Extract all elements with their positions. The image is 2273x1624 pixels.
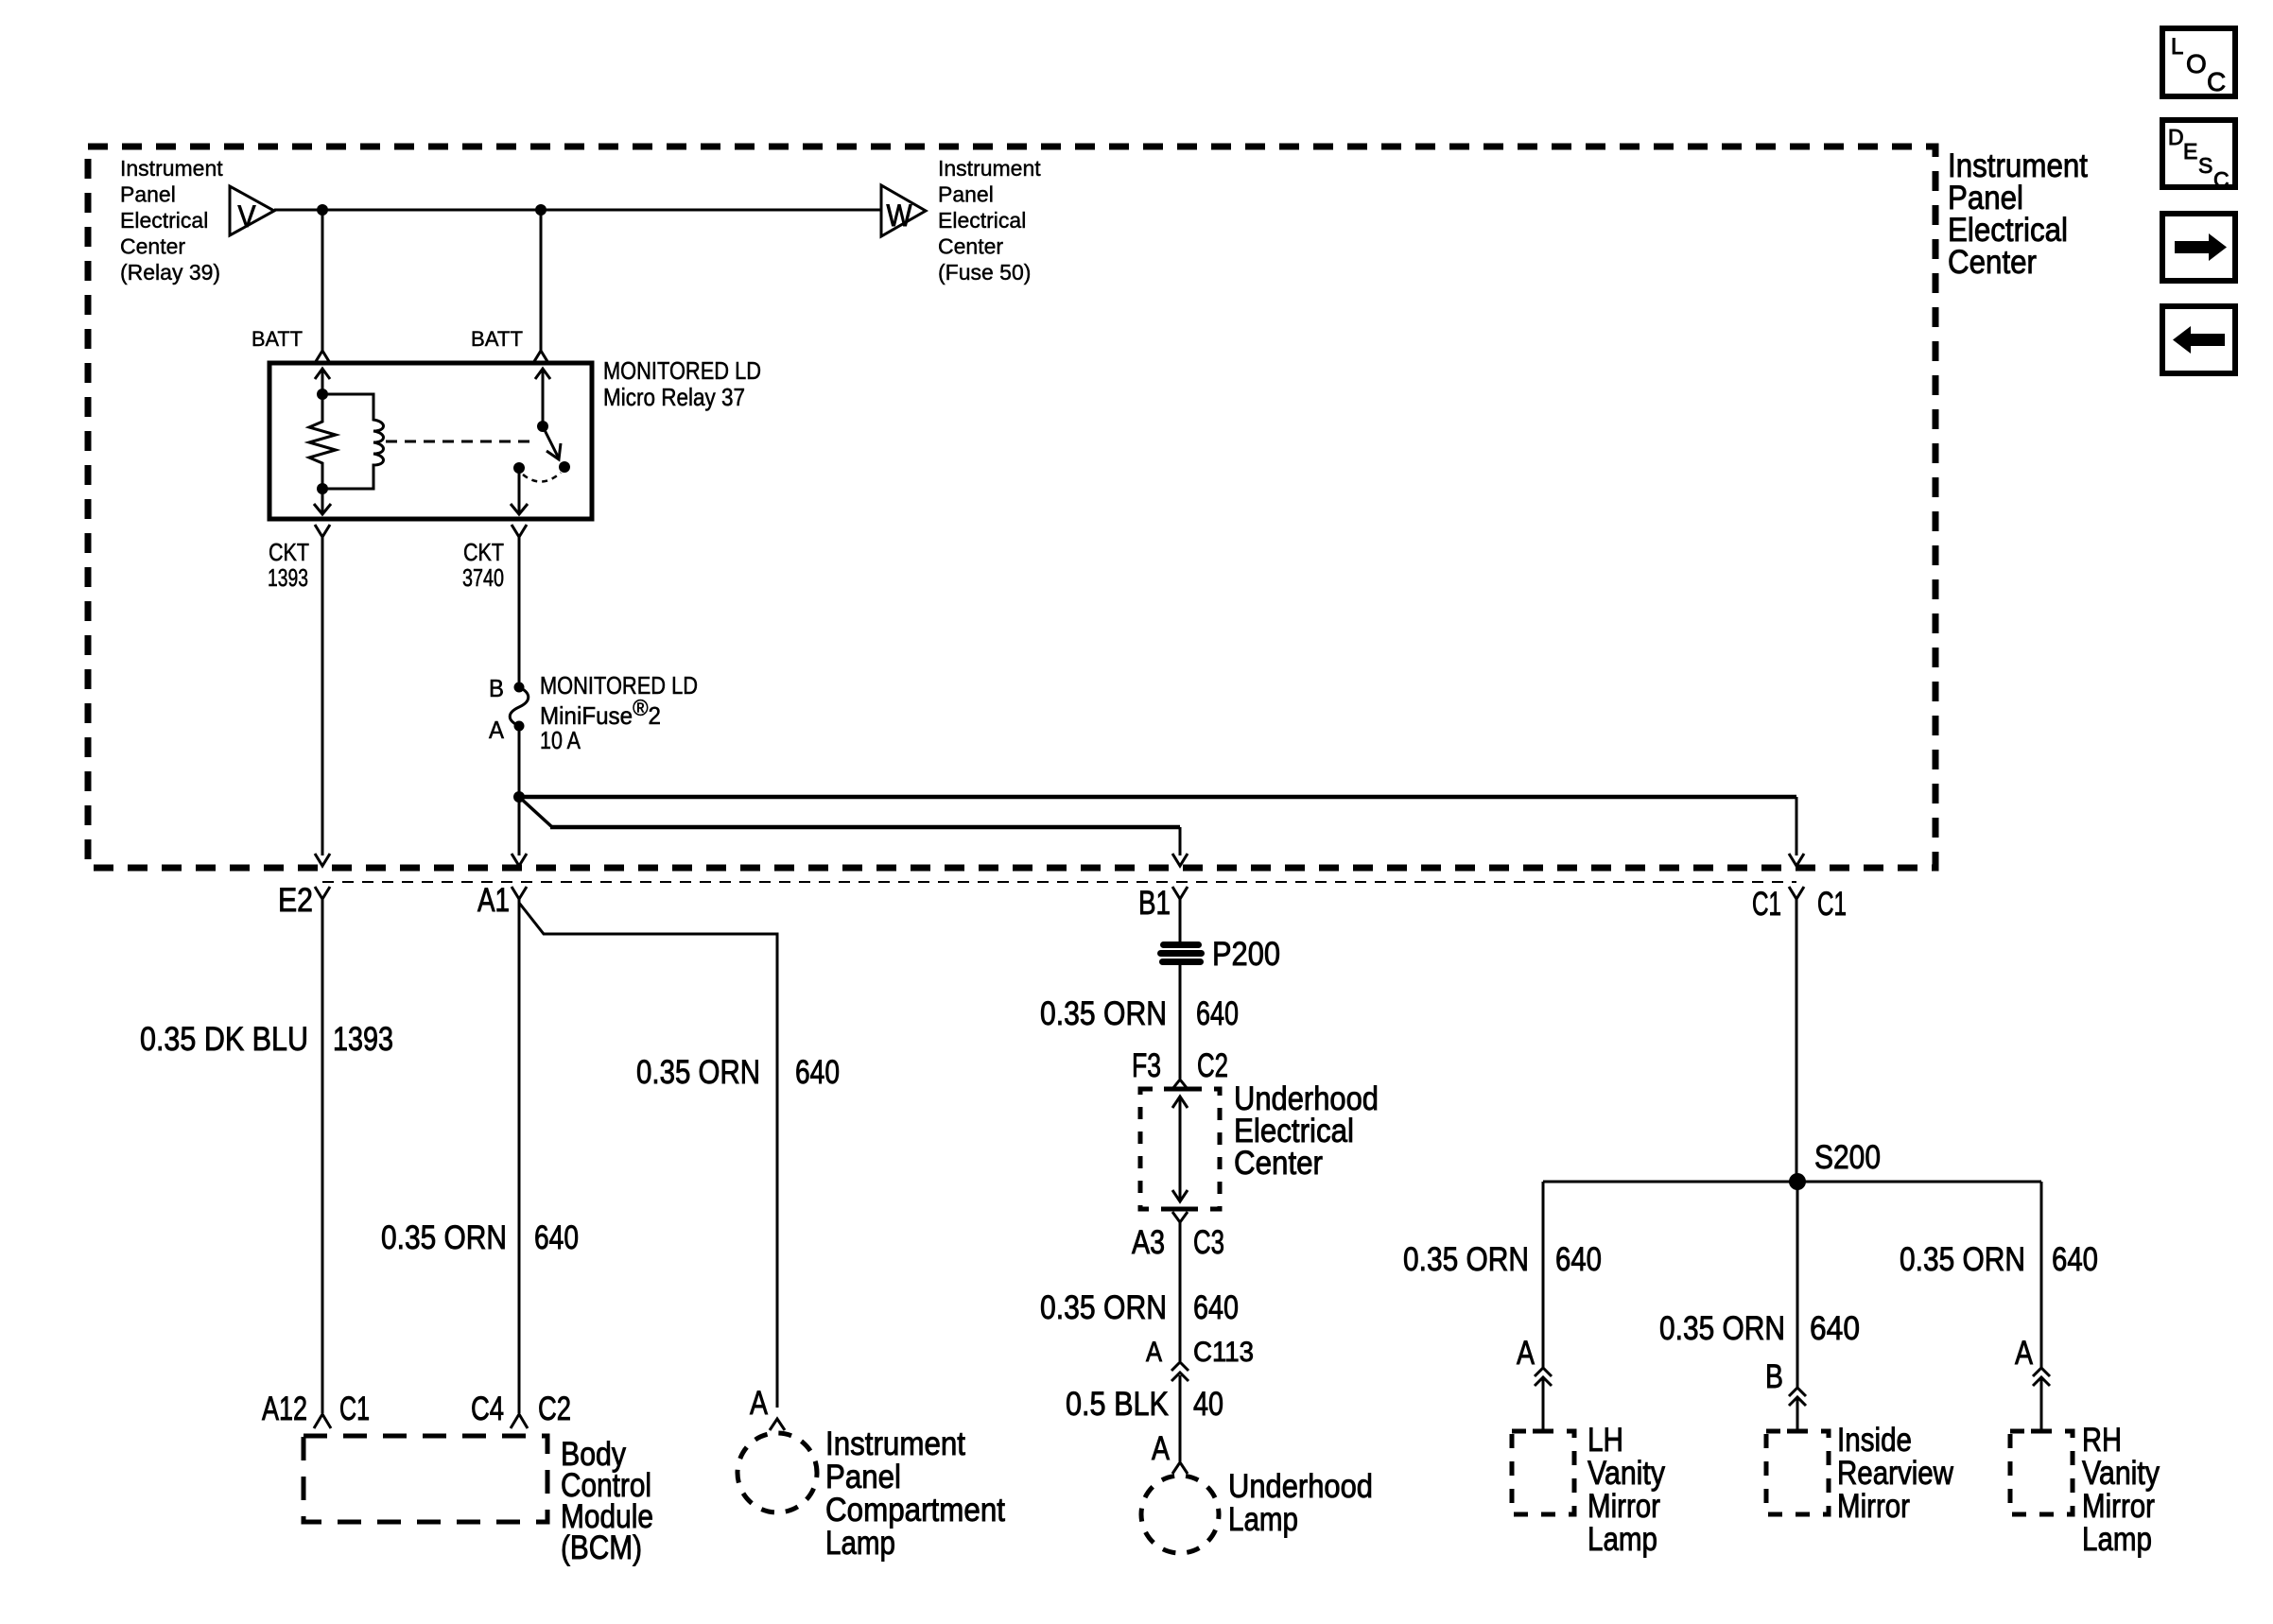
svg-text:A: A xyxy=(1152,1430,1171,1467)
svg-text:A3: A3 xyxy=(1132,1224,1165,1261)
relay switch: arrow into pin from BATT xyxy=(542,369,545,426)
wire: branch to connector C1 (top horizontal) xyxy=(519,795,1796,800)
svg-text:0.35 DK BLU: 0.35 DK BLU xyxy=(140,1021,308,1058)
IP compartment lamp dashed circle xyxy=(737,1433,817,1512)
svg-text:Compartment: Compartment xyxy=(825,1492,1005,1529)
svg-text:Mirror: Mirror xyxy=(1588,1488,1660,1525)
svg-text:Inside: Inside xyxy=(1837,1422,1912,1459)
svg-text:0.35 ORN: 0.35 ORN xyxy=(1900,1241,2025,1278)
svg-text:Rearview: Rearview xyxy=(1837,1455,1954,1492)
relay K37 box: MONITORED LD Micro Relay 37 xyxy=(269,363,592,519)
wire: S200 to inside rearview mirror xyxy=(1796,1182,1799,1388)
terminal chevron into relay (left BATT) xyxy=(315,351,330,363)
svg-text:Panel: Panel xyxy=(120,182,176,207)
svg-text:B: B xyxy=(1765,1358,1783,1395)
svg-text:W: W xyxy=(887,199,913,233)
node: switch pivot xyxy=(537,421,548,432)
svg-text:0.35 ORN: 0.35 ORN xyxy=(1659,1310,1785,1347)
label: Instrument Panel Electrical Center (Fuse 50) xyxy=(938,156,1041,285)
svg-text:0.35 ORN: 0.35 ORN xyxy=(381,1219,507,1256)
label: Instrument Panel Electrical Center (Relay 39) xyxy=(120,156,223,285)
svg-text:Center: Center xyxy=(938,234,1003,259)
svg-text:0.35 ORN: 0.35 ORN xyxy=(1040,1289,1167,1326)
outer dashed box: Instrument Panel Electrical Center boundary xyxy=(88,147,1935,868)
svg-text:Center: Center xyxy=(1948,244,2037,281)
svg-text:Electrical: Electrical xyxy=(938,208,1026,233)
svg-text:A12: A12 xyxy=(262,1391,307,1427)
node: coil top junction xyxy=(317,389,328,400)
svg-text:S: S xyxy=(2198,153,2212,178)
svg-text:F3: F3 xyxy=(1132,1047,1161,1084)
svg-text:Micro Relay 37: Micro Relay 37 xyxy=(603,383,745,411)
inline connector double chevron (center) xyxy=(1789,1388,1806,1396)
relay coil (inductor) in parallel xyxy=(322,394,384,489)
wire: S200 to RH vanity mirror lamp xyxy=(2040,1182,2043,1368)
dashed throw arc of switch xyxy=(523,473,561,482)
connector chevron C1 xyxy=(1789,887,1804,899)
svg-text:O: O xyxy=(2186,49,2207,78)
connector chevron below UHEC (A3/C3) xyxy=(1172,1212,1188,1222)
wire: S200 distribution bus xyxy=(1543,1181,2041,1183)
svg-text:640: 640 xyxy=(1196,995,1239,1032)
svg-text:CKT: CKT xyxy=(463,538,504,566)
RH vanity mirror lamp dashed box xyxy=(2010,1431,2073,1514)
svg-text:Panel: Panel xyxy=(938,182,994,207)
underhood lamp dashed circle xyxy=(1141,1476,1219,1553)
svg-text:L: L xyxy=(2171,34,2183,60)
svg-text:0.5 BLK: 0.5 BLK xyxy=(1066,1386,1169,1423)
terminal chevron into underhood lamp xyxy=(1172,1462,1188,1474)
terminal chevron into UHEC xyxy=(1172,1080,1188,1089)
svg-text:Electrical: Electrical xyxy=(120,208,208,233)
connector chevron E2 xyxy=(315,887,330,899)
svg-text:0.35 ORN: 0.35 ORN xyxy=(1403,1241,1529,1278)
svg-text:A1: A1 xyxy=(477,882,510,919)
svg-text:3740: 3740 xyxy=(462,563,504,592)
relay switch blade with arrowhead xyxy=(543,426,559,458)
svg-text:BATT: BATT xyxy=(252,327,303,351)
svg-text:(BCM): (BCM) xyxy=(561,1529,642,1566)
terminal chevron into IP compartment lamp xyxy=(770,1419,785,1430)
label: Underhood Electrical Center xyxy=(1234,1080,1379,1182)
wire: CKT 1393 down to connector E2 xyxy=(321,537,324,855)
svg-text:E2: E2 xyxy=(278,882,313,919)
label: LH Vanity Mirror Lamp xyxy=(1588,1422,1665,1558)
svg-text:Lamp: Lamp xyxy=(1228,1501,1298,1538)
svg-text:Center: Center xyxy=(1234,1145,1323,1182)
terminal chevron out of relay (CKT 1393) xyxy=(315,525,330,537)
svg-text:640: 640 xyxy=(1555,1241,1602,1278)
svg-text:C2: C2 xyxy=(538,1391,571,1427)
svg-text:640: 640 xyxy=(2052,1241,2098,1278)
dashed actuation link from coil to switch xyxy=(386,441,535,443)
connector chevron A12 into BCM xyxy=(314,1414,331,1428)
inline connector double chevron (LH) xyxy=(1535,1368,1552,1376)
svg-text:Mirror: Mirror xyxy=(2082,1488,2155,1525)
inline connector C113 double chevron xyxy=(1171,1362,1189,1371)
node: junction at left BATT drop xyxy=(317,204,328,216)
svg-text:(Relay 39): (Relay 39) xyxy=(120,260,220,285)
svg-text:0.35 ORN: 0.35 ORN xyxy=(1040,995,1167,1032)
inline connector double chevron (RH) xyxy=(2033,1368,2050,1376)
svg-text:P200: P200 xyxy=(1212,936,1280,973)
thin dashed connector face line xyxy=(322,881,1796,883)
svg-text:C1: C1 xyxy=(1752,886,1781,923)
resistor (relay suppression) zigzag xyxy=(309,394,336,489)
wire: C113 to underhood lamp xyxy=(1179,1375,1182,1461)
LH vanity mirror lamp dashed box xyxy=(1512,1431,1574,1514)
splice P200 xyxy=(1157,942,1205,965)
legend box right-arrow xyxy=(2162,214,2235,281)
svg-text:MONITORED LD: MONITORED LD xyxy=(540,671,698,700)
svg-text:B1: B1 xyxy=(1138,885,1171,922)
svg-text:10 A: 10 A xyxy=(540,726,581,754)
fuse F2: MONITORED LD MiniFuse 2 10A xyxy=(514,682,525,693)
node: coil bottom junction xyxy=(317,483,328,494)
svg-text:MONITORED LD: MONITORED LD xyxy=(603,356,761,385)
terminal chevron into relay (right BATT) xyxy=(533,351,548,363)
off-page reference triangle W xyxy=(881,185,926,236)
svg-text:Instrument: Instrument xyxy=(120,156,223,181)
svg-text:A: A xyxy=(489,716,505,744)
node: splice S200 xyxy=(1789,1173,1806,1190)
connector chevron B1 xyxy=(1172,887,1188,899)
svg-text:C1: C1 xyxy=(339,1391,370,1427)
Underhood Electrical Center dashed box xyxy=(1140,1089,1220,1209)
svg-text:D: D xyxy=(2168,125,2184,149)
svg-text:640: 640 xyxy=(1810,1310,1860,1347)
svg-text:0.35 ORN: 0.35 ORN xyxy=(636,1054,760,1091)
svg-text:B: B xyxy=(489,674,504,702)
connector arrows at IPEC boundary (E2,A1,B1,C1) xyxy=(315,854,330,866)
connector chevron A1 xyxy=(512,887,527,899)
svg-text:C4: C4 xyxy=(471,1391,504,1427)
svg-text:Vanity: Vanity xyxy=(2082,1455,2160,1492)
svg-text:1393: 1393 xyxy=(333,1021,393,1058)
svg-text:40: 40 xyxy=(1193,1386,1223,1423)
svg-text:RH: RH xyxy=(2082,1422,2122,1459)
svg-text:Lamp: Lamp xyxy=(825,1525,895,1562)
svg-text:C: C xyxy=(2213,167,2230,192)
svg-text:C3: C3 xyxy=(1193,1224,1224,1261)
label: Instrument Panel Compartment Lamp xyxy=(825,1425,1005,1562)
fuse element inside UHEC (double-ended arrow) xyxy=(1179,1097,1182,1201)
node: junction below fuse xyxy=(513,791,525,803)
relay coil branch: arrow into pin (left) xyxy=(321,369,324,394)
svg-text:LH: LH xyxy=(1588,1422,1623,1459)
svg-text:C113: C113 xyxy=(1193,1337,1254,1368)
svg-text:Panel: Panel xyxy=(825,1459,901,1495)
wire: switch output to bottom pin with arrow xyxy=(518,468,521,514)
svg-text:C2: C2 xyxy=(1197,1047,1228,1084)
node: switch blade contact (NO) xyxy=(559,461,570,473)
svg-text:V: V xyxy=(238,199,257,233)
svg-text:CKT: CKT xyxy=(269,538,309,566)
svg-text:Mirror: Mirror xyxy=(1837,1488,1910,1525)
wire: branch to connector B1 xyxy=(519,797,552,827)
svg-text:Center: Center xyxy=(120,234,185,259)
svg-text:C: C xyxy=(2207,67,2226,96)
wire: fuse output to splice junction xyxy=(518,726,521,797)
svg-text:640: 640 xyxy=(534,1219,579,1256)
svg-text:MiniFuse®2: MiniFuse®2 xyxy=(540,696,661,730)
wire: coil to bottom pin with arrow xyxy=(321,489,324,514)
legend box left-arrow xyxy=(2162,306,2235,373)
wire: S200 to LH vanity mirror lamp xyxy=(1542,1182,1545,1368)
svg-text:(Fuse 50): (Fuse 50) xyxy=(938,260,1031,285)
wire: CKT 3740 down to fuse xyxy=(518,537,521,687)
wire: left BATT drop xyxy=(321,210,324,351)
svg-text:A: A xyxy=(1517,1335,1536,1372)
svg-text:640: 640 xyxy=(795,1054,840,1091)
svg-text:A: A xyxy=(1146,1337,1162,1368)
wire: P200 to underhood electrical center xyxy=(1179,964,1182,1079)
wire: right BATT drop xyxy=(540,210,543,351)
wire: A1 branch to IP compartment lamp xyxy=(519,903,777,1408)
svg-text:Lamp: Lamp xyxy=(1588,1521,1657,1558)
label: RH Vanity Mirror Lamp xyxy=(2082,1422,2160,1558)
svg-text:A: A xyxy=(2015,1335,2034,1372)
terminal chevron out of relay (CKT 3740) xyxy=(512,525,527,537)
svg-text:E: E xyxy=(2183,139,2197,164)
svg-text:Instrument: Instrument xyxy=(938,156,1041,181)
label: Body Control Module (BCM) xyxy=(561,1436,653,1566)
node: switch output contact xyxy=(513,462,525,474)
svg-text:1393: 1393 xyxy=(268,563,308,592)
svg-text:Instrument: Instrument xyxy=(825,1425,965,1462)
svg-text:A: A xyxy=(750,1385,769,1422)
label: Inside Rearview Mirror xyxy=(1837,1422,1954,1525)
wire: junction down to connector A1 xyxy=(518,797,521,855)
svg-text:S200: S200 xyxy=(1814,1139,1881,1176)
svg-text:C1: C1 xyxy=(1817,886,1847,923)
off-page reference triangle V xyxy=(230,186,274,235)
connector chevron C2 into BCM xyxy=(511,1414,528,1428)
svg-text:BATT: BATT xyxy=(471,327,523,351)
Body Control Module dashed box xyxy=(304,1436,547,1522)
svg-text:Underhood: Underhood xyxy=(1228,1468,1373,1505)
inside rearview mirror dashed box xyxy=(1766,1431,1829,1514)
svg-text:640: 640 xyxy=(1193,1289,1239,1326)
legend box DESC xyxy=(2162,120,2235,187)
svg-text:Vanity: Vanity xyxy=(1588,1455,1665,1492)
wire: top feed bus from V to W xyxy=(274,209,881,212)
legend box LOC xyxy=(2162,28,2235,96)
svg-text:Lamp: Lamp xyxy=(2082,1521,2152,1558)
node: junction at right BATT drop xyxy=(535,204,547,216)
label: Instrument Panel Electrical Center (right of dashed box) xyxy=(1948,147,2088,281)
